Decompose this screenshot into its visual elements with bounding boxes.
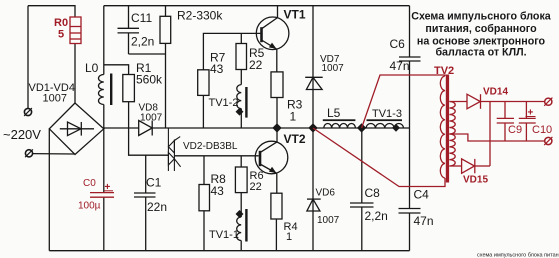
svg-text:560k: 560k	[136, 73, 163, 87]
svg-text:VD14: VD14	[483, 87, 508, 98]
svg-text:1007: 1007	[317, 215, 340, 226]
wire center tap to minus output	[449, 134, 544, 141]
wire C1 drop	[145, 155, 147, 193]
bridge inner diode	[60, 122, 94, 136]
svg-text:питания, собранного: питания, собранного	[425, 23, 537, 35]
svg-text:+: +	[528, 108, 534, 119]
capacitor C8	[350, 128, 374, 251]
wire left rail lower	[103, 197, 105, 251]
wire VD15 cathode	[475, 165, 490, 167]
wire left rail upper	[103, 6, 105, 75]
svg-text:1: 1	[290, 110, 297, 124]
wire secondary bottom to VD15	[449, 165, 461, 167]
resistor R4	[271, 193, 282, 251]
bridge rectifier VD1-VD4 diamond	[49, 103, 104, 155]
wire to C1 branch	[129, 128, 169, 155]
diode VD15	[462, 159, 475, 173]
svg-text:VD6: VD6	[316, 188, 336, 199]
svg-text:C8: C8	[365, 186, 381, 200]
diode VD14	[467, 94, 481, 109]
transformer TV2 secondary upper	[449, 102, 455, 135]
svg-text:2,2n: 2,2n	[365, 209, 388, 223]
resistor R8	[199, 156, 210, 251]
svg-text:22n: 22n	[147, 200, 167, 214]
svg-text:C4: C4	[414, 188, 430, 202]
wire bridge minus drop	[48, 129, 50, 251]
diac VD2-DB3BL	[168, 128, 180, 171]
wire red to TV2 primary top	[362, 75, 445, 128]
terminal output minus	[544, 137, 552, 145]
svg-text:Схема импульсного блока: Схема импульсного блока	[411, 11, 552, 23]
resistor R3	[271, 72, 283, 128]
wire input loop left	[27, 6, 29, 109]
svg-text:VT2: VT2	[284, 132, 306, 146]
svg-text:2,2n: 2,2n	[131, 35, 154, 49]
inductor L5	[323, 119, 356, 128]
svg-text:TV1-3: TV1-3	[372, 108, 402, 120]
svg-text:TV2: TV2	[434, 65, 454, 77]
diode VD8	[139, 121, 153, 136]
svg-text:VD15: VD15	[463, 175, 488, 186]
transformer winding TV1-3	[366, 119, 403, 128]
resistor R7	[198, 70, 209, 96]
terminal input 2	[25, 149, 33, 157]
wire top rail	[104, 5, 410, 7]
svg-text:1: 1	[286, 231, 292, 243]
svg-text:C11: C11	[131, 11, 152, 25]
wire bottom rail	[49, 250, 409, 252]
svg-text:22: 22	[249, 58, 263, 72]
transistor VT2	[255, 128, 288, 193]
svg-text:22: 22	[250, 181, 262, 193]
svg-text:47n: 47n	[414, 214, 434, 228]
svg-text:C0: C0	[83, 178, 96, 189]
svg-text:+: +	[105, 182, 111, 193]
resistor R6	[235, 156, 247, 217]
label C0	[78, 178, 111, 212]
diode VD7	[305, 6, 323, 128]
wire mid rail right of VD8	[152, 127, 409, 129]
wire mid rail left of VD8	[104, 127, 139, 129]
wire input loop top	[28, 6, 75, 17]
transistor VT1	[256, 6, 289, 72]
capacitor C9	[497, 102, 514, 142]
resistor R5	[236, 33, 247, 84]
terminal output plus	[544, 98, 552, 106]
label R0	[54, 17, 68, 41]
svg-text:C1: C1	[146, 176, 162, 190]
svg-text:C6: C6	[390, 37, 406, 51]
junction node L5-TV1-3	[357, 123, 366, 132]
svg-text:L5: L5	[327, 106, 341, 120]
wire right column	[409, 61, 411, 209]
svg-text:схема импульсного блока питани: схема импульсного блока питания	[477, 253, 559, 258]
svg-text:1007: 1007	[140, 113, 163, 124]
svg-text:балласта от КЛЛ.: балласта от КЛЛ.	[435, 47, 526, 59]
svg-text:TV1-1: TV1-1	[209, 229, 239, 241]
wire R0 to bridge top	[74, 44, 76, 104]
wire rail to R1 jog	[104, 65, 129, 75]
capacitor C0	[90, 191, 114, 197]
junction node VD7-VD6	[308, 123, 317, 132]
svg-text:5: 5	[58, 29, 64, 41]
svg-text:TV1-2: TV1-2	[209, 97, 239, 109]
resistor R2	[160, 6, 171, 128]
wire secondary top to VD14	[449, 101, 467, 103]
capacitor C10	[519, 102, 536, 142]
svg-text:47n: 47n	[390, 59, 410, 73]
wire VT1 base network top	[203, 33, 261, 128]
winding dot TV1-3	[392, 124, 400, 132]
svg-text:VT1: VT1	[284, 8, 306, 22]
svg-text:R2-330k: R2-330k	[177, 9, 223, 23]
svg-text:L0: L0	[85, 61, 99, 75]
transformer winding TV1-2	[237, 85, 248, 128]
wire cathodes join	[489, 102, 491, 167]
svg-text:~220V: ~220V	[3, 127, 41, 142]
transformer TV2 core	[446, 75, 449, 183]
wire diac to VT2 base	[174, 155, 258, 157]
wire terminal2 to bridge bottom	[33, 153, 75, 155]
winding dot TV1-1	[236, 210, 244, 218]
wire C11 to R2	[129, 53, 166, 55]
svg-text:1007: 1007	[322, 63, 345, 74]
capacitor C6	[399, 6, 421, 61]
svg-text:C10: C10	[532, 124, 552, 136]
wire red to TV2 primary bottom	[313, 128, 445, 187]
wire left rail middle	[103, 105, 105, 193]
capacitor C11	[118, 6, 140, 54]
svg-text:100µ: 100µ	[78, 201, 101, 212]
transformer TV2 primary winding	[440, 76, 445, 178]
resistor R1	[123, 75, 135, 129]
terminal input 1	[24, 108, 32, 116]
transformer TV2 secondary lower	[449, 134, 455, 166]
transformer winding TV1-1	[237, 209, 248, 251]
svg-text:R0: R0	[54, 17, 68, 29]
junction node VT half-bridge midpoint	[272, 123, 281, 132]
svg-text:VD2-DB3BL: VD2-DB3BL	[183, 141, 238, 152]
wire VD14 to plus output	[481, 101, 545, 103]
capacitor C4	[399, 209, 421, 251]
svg-text:43: 43	[211, 184, 225, 198]
inductor L0	[99, 74, 113, 106]
resistor R0	[70, 17, 81, 44]
winding dot TV1-2	[236, 108, 244, 116]
capacitor C1	[134, 193, 156, 251]
svg-text:C9: C9	[508, 124, 522, 136]
svg-text:43: 43	[210, 62, 224, 76]
svg-text:1007: 1007	[43, 93, 67, 105]
diode VD6	[307, 128, 321, 251]
